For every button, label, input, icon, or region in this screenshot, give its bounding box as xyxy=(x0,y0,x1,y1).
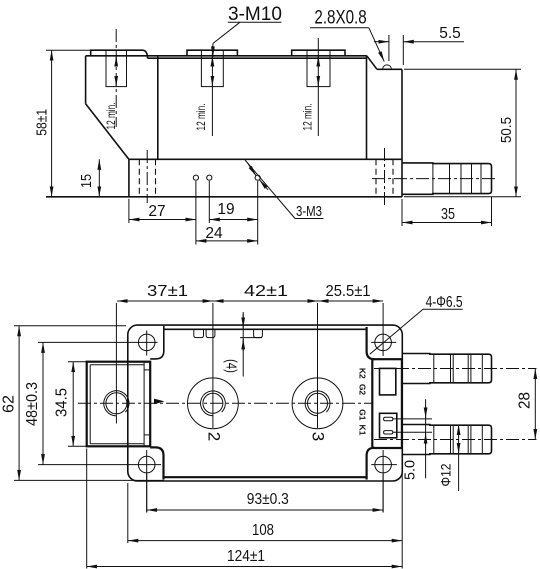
dim 5.5 arrows outside xyxy=(374,41,389,43)
terminal 1 centerline xyxy=(115,29,117,127)
gate pin slot 3 xyxy=(254,329,263,337)
screw hole 2 xyxy=(201,50,223,86)
hose barb plan upper xyxy=(402,354,492,384)
terminal housing right edge xyxy=(366,56,368,160)
connector block body xyxy=(372,359,402,448)
svg-text:3: 3 xyxy=(309,432,328,441)
connector pin K1 xyxy=(384,431,393,434)
dim 93±0.3 extension lines xyxy=(146,474,148,513)
terminal 2 vertical centerline xyxy=(212,303,214,428)
terminal 1 clamp plate outer xyxy=(87,362,151,447)
main terminal 2 pad circle xyxy=(188,378,239,429)
mounting hole bottom-left crosshair xyxy=(127,464,161,466)
centerline direction arrow xyxy=(154,399,165,405)
dim 108 extension lines xyxy=(127,483,129,543)
svg-text:2.8X0.8: 2.8X0.8 xyxy=(314,7,366,29)
svg-text:12 min.: 12 min. xyxy=(104,103,118,130)
dim 5.0 line xyxy=(425,399,427,478)
connector pin G1 xyxy=(384,417,393,420)
terminal 1 thread hole xyxy=(106,393,127,414)
svg-text:Φ12: Φ12 xyxy=(438,463,454,486)
svg-text:48±0.3: 48±0.3 xyxy=(24,382,41,426)
screw hole 1 xyxy=(106,50,127,86)
upper barb centerline xyxy=(374,368,537,370)
body top-right slope xyxy=(367,56,377,70)
dim 108 xyxy=(128,540,402,542)
svg-text:15: 15 xyxy=(78,174,95,188)
dim 19 xyxy=(209,219,257,221)
lower barb rib lines xyxy=(433,425,435,455)
svg-text:93±0.3: 93±0.3 xyxy=(247,491,289,508)
dim 50.5 extension lines xyxy=(404,68,521,70)
dim (4) arrows xyxy=(242,314,244,328)
housing bottom-left ear boundary xyxy=(150,447,163,479)
dim 27 extension lines xyxy=(128,199,130,223)
upper barb rib lines xyxy=(433,354,435,384)
svg-text:2: 2 xyxy=(205,432,224,441)
M3 gauge hole A xyxy=(193,175,198,180)
svg-text:4-Φ6.5: 4-Φ6.5 xyxy=(426,294,463,311)
svg-text:K2: K2 xyxy=(357,368,367,379)
body top surface line xyxy=(86,55,367,57)
mounting hole top-right crosshair xyxy=(371,341,396,343)
connector window K2 G2 xyxy=(380,368,396,395)
body right edge xyxy=(401,69,403,197)
dim 27 xyxy=(129,219,196,221)
hose barb plan lower xyxy=(402,425,492,455)
svg-text:25.5±1: 25.5±1 xyxy=(326,283,371,300)
dim 62 xyxy=(18,326,20,481)
dim (4) leader line xyxy=(242,312,244,377)
2.8X0.8 leader xyxy=(369,28,384,62)
housing top-left ear boundary xyxy=(150,326,164,359)
dim φ12 line xyxy=(458,425,460,492)
terminal 3 vertical centerline xyxy=(317,303,319,428)
dim 62 extension lines xyxy=(14,325,126,327)
svg-text:K1: K1 xyxy=(357,425,367,436)
dim 5.0 pin extension lines xyxy=(393,418,432,420)
svg-text:37±1: 37±1 xyxy=(147,283,188,300)
dim 34.5 extension lines xyxy=(68,361,88,363)
M3 gauge hole C xyxy=(255,175,260,180)
thread depth arrows terminal 2 xyxy=(211,56,213,67)
housing top-right ear boundary xyxy=(367,327,375,359)
terminal 1 plate right column xyxy=(143,362,145,447)
main terminal 3 pad circle xyxy=(292,378,343,429)
mounting hole top-left xyxy=(138,334,155,351)
dim φ12 upper arrow xyxy=(458,443,460,454)
housing bottom edge xyxy=(164,476,367,478)
svg-text:(4): (4) xyxy=(223,359,240,373)
dim 15 xyxy=(98,159,100,197)
4-φ6.5 leader xyxy=(370,309,423,354)
dim (4) reference line xyxy=(240,337,262,339)
terminal 1 thread arc xyxy=(104,391,129,416)
3-M3 underline xyxy=(295,218,324,220)
terminal pad 1 xyxy=(91,50,148,58)
dim 124±1 extension line xyxy=(86,449,88,569)
water channel centerline right xyxy=(384,148,386,205)
svg-text:108: 108 xyxy=(252,522,274,539)
dim 58±1 extension line xyxy=(46,49,92,51)
dim 48±0.3 extension lines xyxy=(38,341,136,343)
mounting hole top-left crosshair xyxy=(136,341,158,343)
dim 19 extension line xyxy=(208,181,210,223)
dim 58±1 xyxy=(51,50,53,197)
thread depth arrows terminal 1 xyxy=(115,56,117,67)
body top chamfer line xyxy=(148,57,367,59)
svg-text:24: 24 xyxy=(205,225,223,242)
svg-text:50.5: 50.5 xyxy=(498,117,515,143)
svg-text:42±1: 42±1 xyxy=(244,283,288,300)
svg-text:28: 28 xyxy=(517,392,534,409)
connector window G1 K1 xyxy=(380,413,397,438)
dim row top: line xyxy=(117,300,213,302)
3-M3 leader arrowheads at gauge hole xyxy=(248,163,257,176)
dim 34.5 xyxy=(72,362,74,447)
top-right hole vertical centerline xyxy=(382,303,384,356)
bottom holes vertical centerlines xyxy=(146,450,148,513)
mounting hole bottom-left xyxy=(138,456,155,473)
terminal 2 centerline xyxy=(211,46,213,136)
terminal pad 3 xyxy=(292,50,345,56)
svg-text:12 min.: 12 min. xyxy=(301,104,315,131)
dim 35 extension lines xyxy=(401,199,403,226)
svg-text:58±1: 58±1 xyxy=(34,109,51,136)
svg-text:35: 35 xyxy=(441,206,455,223)
dim 35 xyxy=(402,222,492,224)
housing bottom-right ear boundary xyxy=(367,448,375,480)
dim 28 xyxy=(534,369,536,440)
svg-text:27: 27 xyxy=(148,203,165,220)
dim 24 xyxy=(196,240,258,242)
body left edge xyxy=(85,56,87,104)
svg-text:3-M3: 3-M3 xyxy=(296,204,322,220)
4-φ6.5 underline xyxy=(423,308,463,310)
baseplate outline xyxy=(128,325,403,481)
barb rib lines xyxy=(432,163,434,194)
3-M10 leader xyxy=(213,22,240,43)
svg-text:5.5: 5.5 xyxy=(439,25,461,42)
hose barb side: collar and ribs xyxy=(402,163,492,194)
M3 gauge hole B xyxy=(207,175,212,180)
terminal 3 centerline xyxy=(317,38,319,136)
module horizontal centerline xyxy=(78,402,372,404)
terminal 1 plate inner lines xyxy=(90,365,144,444)
3-M3 leader xyxy=(245,160,295,219)
2.8X0.8 underline xyxy=(310,27,369,29)
terminal 3 thread arc xyxy=(305,391,330,416)
dim 48±0.3 xyxy=(42,342,44,464)
terminal 2 thread hole xyxy=(203,393,223,413)
dim 50.5 xyxy=(515,69,517,197)
mounting hole bottom-right xyxy=(375,456,392,473)
terminal 2 thread arc xyxy=(201,391,226,416)
body bottom-left chamfer xyxy=(86,104,129,160)
dim 5.0 arrows xyxy=(425,406,427,418)
svg-text:19: 19 xyxy=(217,201,234,218)
body right ledge xyxy=(377,68,402,70)
svg-text:34.5: 34.5 xyxy=(54,388,71,417)
terminal 3 thread hole xyxy=(308,393,328,413)
svg-text:G2: G2 xyxy=(357,384,367,396)
left block right edge xyxy=(157,56,159,160)
screw hole 3 xyxy=(307,50,330,86)
thread depth arrows terminal 3 xyxy=(317,56,319,67)
svg-text:12 min.: 12 min. xyxy=(194,104,208,131)
housing top edge xyxy=(164,328,367,330)
water channel hidden lines left xyxy=(138,159,140,197)
3-M10 underline xyxy=(228,21,282,23)
barb centerline xyxy=(372,178,497,180)
mounting hole top-right xyxy=(375,334,392,351)
dim 93±0.3 xyxy=(147,509,383,511)
svg-text:62: 62 xyxy=(1,395,18,413)
svg-text:124±1: 124±1 xyxy=(227,548,265,565)
gate pin slot 1 xyxy=(194,329,204,337)
svg-text:5.0: 5.0 xyxy=(402,460,419,480)
dim 5.5 extension lines xyxy=(388,35,390,61)
heatsink left edge xyxy=(128,159,130,197)
terminal pad 2 xyxy=(187,50,237,56)
module baseline xyxy=(46,196,402,198)
solder tab 2.8x0.8 bump xyxy=(383,65,392,69)
lower barb centerline xyxy=(374,439,537,441)
water channel hidden lines right xyxy=(375,159,377,197)
mounting hole bottom-right crosshair xyxy=(371,464,397,466)
terminal 1 vertical centerline xyxy=(115,303,117,424)
water channel centerline left xyxy=(146,150,148,203)
heatsink top seam xyxy=(129,158,402,160)
gate pin slot 2 xyxy=(206,329,215,337)
svg-text:G1: G1 xyxy=(357,409,367,421)
dim 124±1 xyxy=(87,566,403,568)
